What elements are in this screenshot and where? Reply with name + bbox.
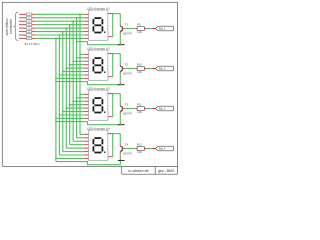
svg-text:e: e <box>90 148 91 150</box>
svg-text:5: 5 <box>105 158 106 160</box>
svg-text:2,2k: 2,2k <box>137 70 143 74</box>
svg-text:c: c <box>25 21 26 23</box>
svg-text:g: g <box>90 35 91 37</box>
svg-text:R11: R11 <box>137 103 142 107</box>
svg-text:10: 10 <box>105 134 107 136</box>
svg-text:8x 47 Ohm: 8x 47 Ohm <box>25 42 41 46</box>
svg-text:g: g <box>90 115 91 117</box>
svg-text:controller: controller <box>9 18 13 34</box>
svg-text:a: a <box>90 134 91 136</box>
svg-text:Dig. 3: Dig. 3 <box>159 108 166 111</box>
svg-text:d: d <box>90 24 91 26</box>
svg-text:b: b <box>24 18 25 20</box>
svg-text:5: 5 <box>105 38 106 40</box>
svg-text:d: d <box>24 25 25 27</box>
svg-text:10: 10 <box>105 14 107 16</box>
svg-text:5: 5 <box>105 118 106 120</box>
svg-text:T3: T3 <box>125 102 129 106</box>
svg-text:BC547: BC547 <box>124 112 133 116</box>
svg-text:BC547: BC547 <box>124 32 133 36</box>
svg-text:b: b <box>90 57 91 59</box>
svg-text:5: 5 <box>105 78 106 80</box>
svg-text:T4: T4 <box>125 142 129 146</box>
svg-text:rn-wissen.de: rn-wissen.de <box>128 169 148 173</box>
svg-text:d: d <box>90 64 91 66</box>
svg-text:R10: R10 <box>137 63 142 67</box>
svg-text:a: a <box>90 94 91 96</box>
svg-text:b: b <box>90 17 91 19</box>
svg-text:e: e <box>90 68 91 70</box>
svg-text:g: g <box>90 75 91 77</box>
svg-text:2,2k: 2,2k <box>137 30 143 34</box>
svg-text:d: d <box>90 144 91 146</box>
svg-text:e: e <box>24 28 25 30</box>
svg-text:b: b <box>90 97 91 99</box>
svg-text:g: g <box>90 155 91 157</box>
svg-text:T1: T1 <box>125 22 129 26</box>
svg-text:e: e <box>90 28 91 30</box>
svg-text:10: 10 <box>105 54 107 56</box>
svg-text:T2: T2 <box>125 62 129 66</box>
svg-text:d: d <box>90 104 91 106</box>
svg-text:a: a <box>90 54 91 56</box>
svg-text:BC547: BC547 <box>124 72 133 76</box>
svg-text:Dig. 4: Dig. 4 <box>159 148 166 151</box>
svg-text:10: 10 <box>105 94 107 96</box>
svg-text:BC547: BC547 <box>124 152 133 156</box>
svg-text:Dig. 2: Dig. 2 <box>159 68 166 71</box>
svg-text:2,2k: 2,2k <box>137 150 143 154</box>
svg-text:R9: R9 <box>137 23 141 27</box>
svg-text:g: g <box>24 35 25 37</box>
svg-text:gez.: BMS: gez.: BMS <box>158 169 175 173</box>
svg-text:b: b <box>90 137 91 139</box>
svg-text:e: e <box>90 108 91 110</box>
svg-text:Dig. 1: Dig. 1 <box>159 28 166 31</box>
svg-text:2,2k: 2,2k <box>137 110 143 114</box>
svg-text:a: a <box>90 14 91 16</box>
svg-text:R12: R12 <box>137 143 142 147</box>
